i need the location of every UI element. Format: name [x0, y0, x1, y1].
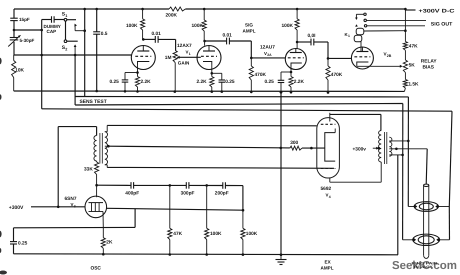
svg-text:400pF: 400pF — [125, 190, 139, 196]
svg-text:SIG OUT: SIG OUT — [431, 21, 453, 27]
svg-text:2: 2 — [65, 48, 67, 52]
svg-text:5692: 5692 — [321, 186, 332, 192]
svg-text:3: 3 — [74, 204, 76, 208]
svg-text:OSC: OSC — [91, 266, 102, 272]
svg-text:200pF: 200pF — [215, 190, 229, 196]
svg-text:1: 1 — [189, 52, 191, 56]
svg-text:1M: 1M — [165, 55, 172, 61]
svg-text:0.25: 0.25 — [265, 79, 275, 85]
svg-text:5K: 5K — [409, 62, 416, 68]
svg-text:47K: 47K — [409, 44, 418, 50]
svg-text:0.01: 0.01 — [223, 33, 233, 39]
svg-text:100K: 100K — [246, 231, 258, 237]
svg-text:470K: 470K — [255, 72, 267, 78]
svg-text:300pF: 300pF — [181, 190, 195, 196]
svg-text:1.5K: 1.5K — [408, 82, 419, 88]
svg-text:47K: 47K — [173, 231, 182, 237]
svg-text:2.2K: 2.2K — [294, 79, 305, 85]
svg-text:+300v: +300v — [353, 146, 367, 152]
svg-text:1: 1 — [348, 34, 350, 38]
svg-text:0,0I: 0,0I — [308, 33, 317, 39]
svg-text:0.5: 0.5 — [101, 31, 108, 37]
svg-text:CAP: CAP — [47, 29, 57, 34]
svg-text:5-30pF: 5-30pF — [20, 38, 35, 43]
svg-text:GAIN: GAIN — [178, 61, 190, 66]
svg-text:4: 4 — [329, 195, 331, 199]
svg-text:2B: 2B — [387, 54, 392, 58]
svg-text:SIG: SIG — [245, 23, 253, 28]
svg-text:100K: 100K — [126, 23, 138, 29]
svg-text:300: 300 — [290, 140, 298, 146]
svg-text:0.25: 0.25 — [18, 240, 28, 246]
svg-text:100K: 100K — [210, 231, 222, 237]
svg-text:DUMMY: DUMMY — [44, 24, 61, 29]
svg-text:0.25: 0.25 — [225, 79, 235, 85]
svg-text:+300V D-C: +300V D-C — [419, 8, 455, 14]
svg-text:IN JACK: IN JACK — [414, 265, 434, 269]
svg-text:AMPL: AMPL — [321, 265, 334, 270]
svg-text:2.2K: 2.2K — [197, 79, 208, 85]
svg-text:RELAY: RELAY — [421, 59, 438, 65]
svg-text:12AX7: 12AX7 — [177, 43, 192, 49]
svg-text:12AU7: 12AU7 — [260, 44, 275, 50]
svg-text:2K: 2K — [106, 239, 113, 245]
svg-text:SENS TEST: SENS TEST — [80, 99, 107, 105]
svg-text:33K: 33K — [84, 166, 93, 172]
svg-text:BIAS: BIAS — [423, 64, 435, 70]
svg-text:2.2K: 2.2K — [141, 79, 152, 85]
svg-text:100K: 100K — [282, 23, 294, 29]
svg-text:+300V: +300V — [9, 205, 24, 211]
svg-text:0.25: 0.25 — [110, 79, 120, 85]
svg-text:0.01: 0.01 — [152, 31, 162, 37]
svg-text:100K: 100K — [192, 23, 204, 29]
svg-text:200K: 200K — [166, 13, 178, 19]
svg-text:10K: 10K — [15, 68, 24, 74]
svg-text:AMPL: AMPL — [243, 28, 256, 33]
svg-text:15pF: 15pF — [19, 17, 30, 22]
svg-text:470K: 470K — [331, 72, 343, 78]
svg-text:2A: 2A — [267, 53, 272, 57]
svg-text:1: 1 — [65, 14, 67, 18]
svg-text:EX: EX — [325, 260, 332, 265]
